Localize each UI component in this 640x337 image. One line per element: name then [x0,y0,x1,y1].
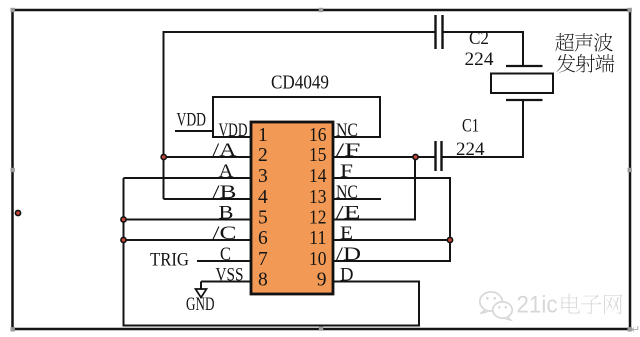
pin number 4 [258,187,268,208]
pin number 1 [258,125,268,146]
wire pin5 B [124,219,252,221]
svg-text:GND: GND [186,294,215,315]
pin number 6 [258,228,268,249]
node dot left [15,210,22,217]
watermark 21ic [517,292,558,319]
paragraph mark [631,324,640,336]
wire pin16 NC [332,136,381,138]
svg-text:224: 224 [456,139,485,160]
wire transducer drop [522,31,524,67]
pin label /C [213,223,237,244]
pin number 3 [258,166,268,187]
svg-text:C1: C1 [462,116,479,137]
svg-text:1: 1 [258,125,268,146]
wire vertical D-down [418,282,420,327]
transducer top plate [506,65,543,67]
svg-text:14: 14 [309,166,327,187]
wire pin11 E [332,239,451,241]
wire pin2 /A [164,156,252,158]
wire vertical left A-net [163,31,165,199]
node junction E [447,237,454,244]
wire pin4 /B [164,198,252,200]
pin label E right [340,223,353,244]
svg-text:2: 2 [258,145,268,166]
pin number 7 [258,249,268,270]
pin number 13 [309,187,327,208]
svg-text:9: 9 [317,270,327,291]
svg-text:3: 3 [258,166,268,187]
pin label D right [340,265,354,286]
wire C2 to transducer [444,31,525,33]
pin number 12 [309,208,327,229]
wire VDD box right [379,97,381,138]
capacitor C2 plate2 [441,15,443,49]
label C1 value 224 [456,139,485,160]
pin number 9 [317,270,327,291]
node junction /F [412,154,419,161]
svg-text:4: 4 [258,187,268,208]
pin label A [219,161,234,182]
pin number 8 [258,270,268,291]
svg-text:11: 11 [309,228,327,249]
wire pin13 NC [332,198,381,200]
watermark wechat icon [480,292,512,320]
wire pin15 /F [332,156,435,158]
svg-text:6: 6 [258,228,268,249]
capacitor C2 plate1 [434,15,436,49]
wire top to C2 [163,31,435,33]
ground label GND [186,294,215,315]
wire pin3 A [124,177,252,179]
wire pin9 D [332,281,420,283]
pin label VDD [219,120,248,141]
wire VDD box left [212,97,214,138]
pin number 16 [309,125,327,146]
svg-text:15: 15 [309,145,327,166]
svg-text:8: 8 [258,270,268,291]
pin number 15 [309,145,327,166]
node junction B [120,216,127,223]
pin number 5 [258,208,268,229]
transducer bottom plate [506,99,543,101]
wire vertical F-net [414,157,416,220]
node junction /C [120,237,127,244]
label C2 [469,28,489,49]
svg-text:TRIG: TRIG [150,250,189,271]
pin label NC right [336,120,358,141]
wire pin10 /D [332,260,451,262]
wire C1 right [443,156,525,158]
svg-text:224: 224 [465,49,495,70]
wire pin1 VDD [213,136,251,138]
node junction /A [160,154,167,161]
capacitor C1 plate2 [440,141,442,171]
pin label NC right [336,182,358,203]
pin label /B [213,182,237,203]
pin number 10 [309,249,327,270]
wire VDD box top [212,96,381,98]
svg-text:7: 7 [258,249,268,270]
wire pin6 /C [124,239,252,241]
ground stub [200,282,202,290]
wire transducer to C1 [522,99,524,158]
wire VDD underline [175,130,213,132]
pin label /D right [336,244,361,265]
wire pin8 VSS [201,281,251,283]
ground arrow [196,289,207,298]
net label ultrasonic emitter line2 [557,54,615,73]
label C2 value 224 [465,49,495,70]
capacitor C1 plate1 [434,141,436,171]
label CD4049 [271,72,329,94]
watermark cjk [562,294,623,314]
svg-text:16: 16 [309,125,327,146]
svg-text:VDD: VDD [177,110,207,131]
svg-text:12: 12 [309,208,327,229]
wire pin14 F [332,177,451,179]
wire pin7 C [197,260,251,262]
svg-text:5: 5 [258,208,268,229]
wire vertical E-net [449,178,451,261]
pin label /E right [336,203,361,224]
svg-text:10: 10 [309,249,327,270]
net label VDD [177,110,207,131]
pin label C [220,244,231,265]
svg-text:CD4049: CD4049 [271,72,329,94]
svg-text:21ic: 21ic [517,292,558,319]
wire pin12 /E [332,219,416,221]
pin label VSS [216,265,244,286]
pin label F right [340,161,353,182]
transducer crystal body [491,74,553,94]
wire vertical left B-net [123,178,125,326]
pin number 11 [309,228,327,249]
label C1 [462,116,479,137]
pin label B [219,203,234,224]
svg-text:13: 13 [309,187,327,208]
pin number 2 [258,145,268,166]
op-amp U1 CD4049 body [251,122,333,294]
pin label /A [213,140,237,161]
pin number 14 [309,166,327,187]
svg-text:↵: ↵ [631,324,640,336]
wire bottom return [123,325,421,327]
net label ultrasonic emitter line1 [555,33,613,51]
pin label /F right [336,140,361,161]
net label TRIG [150,250,189,271]
